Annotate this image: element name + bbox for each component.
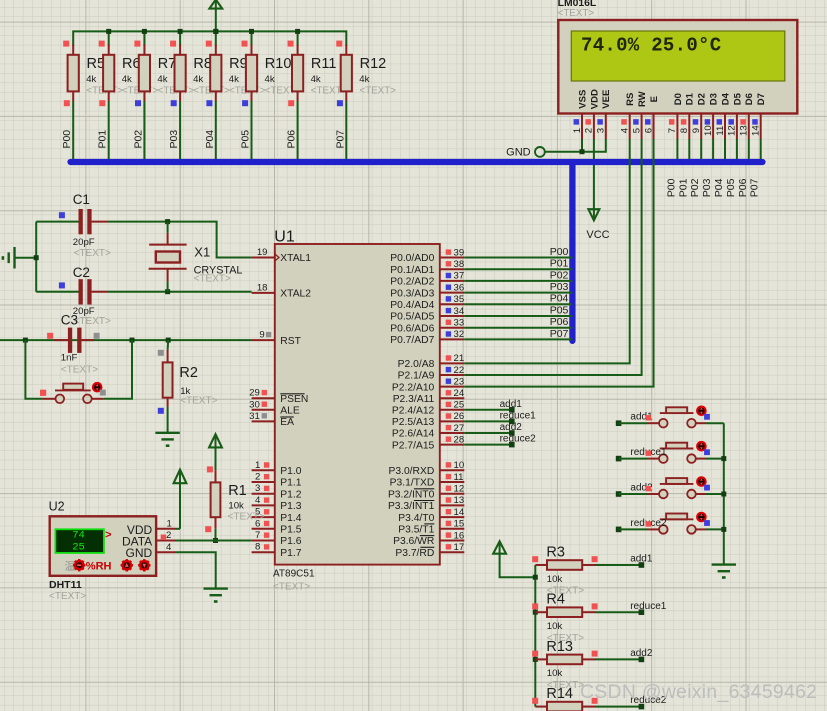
- wire P2.6 / node add2: [464, 422, 522, 436]
- svg-text:12: 12: [727, 125, 738, 136]
- svg-text:P04: P04: [713, 178, 725, 197]
- LCD pin 13 stub: [739, 114, 750, 140]
- IC U1 AT89C51 body: [273, 228, 440, 592]
- svg-text:P2.0/A8: P2.0/A8: [398, 359, 435, 370]
- svg-text:9: 9: [691, 128, 702, 133]
- wire P2.1 to LCD RW: [464, 139, 641, 375]
- crystal X1 CRYSTAL: [149, 222, 243, 292]
- svg-text:16: 16: [454, 530, 465, 541]
- svg-text:10: 10: [454, 460, 465, 471]
- svg-text:P00: P00: [61, 130, 73, 149]
- svg-text:4: 4: [620, 127, 631, 133]
- svg-text:28: 28: [454, 434, 465, 445]
- svg-text:VCC: VCC: [586, 229, 609, 241]
- wire P0.6 to bus / net label P06: [464, 316, 572, 328]
- svg-text:add1: add1: [630, 554, 653, 565]
- svg-text:XTAL1: XTAL1: [280, 253, 311, 264]
- svg-text:P3.2/INT0: P3.2/INT0: [388, 489, 435, 500]
- svg-text:<TEXT>: <TEXT>: [74, 248, 111, 259]
- U1 pin P1.5 (6): [252, 518, 302, 535]
- svg-text:15: 15: [454, 519, 465, 530]
- svg-text:D5: D5: [732, 92, 743, 105]
- svg-text:P0.4/AD4: P0.4/AD4: [390, 300, 434, 311]
- svg-text:13: 13: [454, 495, 465, 506]
- junction power rail / VCC arrow: [213, 29, 218, 34]
- junction RST/button right: [130, 338, 135, 343]
- svg-text:add2: add2: [630, 648, 653, 659]
- svg-text:P2.7/A15: P2.7/A15: [392, 440, 435, 451]
- push button (reset): [40, 382, 106, 403]
- svg-text:C3: C3: [61, 313, 78, 328]
- svg-text:18: 18: [257, 282, 268, 293]
- power flag VCC (down arrow): [586, 209, 609, 241]
- svg-text:22: 22: [454, 365, 465, 376]
- svg-text:74.0% 25.0°C: 74.0% 25.0°C: [581, 34, 721, 56]
- wire DHT11 DATA to P1.6: [175, 540, 252, 542]
- junction VSS/GND wire: [580, 149, 585, 154]
- svg-text:8: 8: [255, 542, 260, 553]
- svg-text:R12: R12: [360, 56, 387, 72]
- wire R3-R14 common: [534, 565, 536, 707]
- wire button reduce1 right: [706, 458, 724, 460]
- svg-text:24: 24: [454, 388, 465, 399]
- svg-text:reduce1: reduce1: [500, 410, 537, 421]
- svg-text:EA: EA: [280, 417, 294, 428]
- svg-text:P02: P02: [550, 269, 569, 281]
- svg-text:2: 2: [255, 472, 260, 483]
- svg-text:4k: 4k: [265, 74, 275, 85]
- push button reduce1: [630, 441, 709, 463]
- svg-text:<TEXT>: <TEXT>: [74, 316, 111, 327]
- LCD LCD1 LM016L: [558, 0, 798, 113]
- resistor R12 4k: [336, 41, 396, 107]
- svg-text:P05: P05: [550, 304, 569, 316]
- svg-text:E: E: [649, 96, 660, 102]
- svg-text:P03: P03: [701, 178, 713, 197]
- capacitor C2 20pF: [36, 265, 111, 327]
- wire P2.2 to LCD E: [464, 139, 653, 387]
- svg-text:<TEXT>: <TEXT>: [180, 396, 217, 407]
- svg-text:6: 6: [643, 128, 654, 133]
- wire R6 to bus / net label P01: [97, 101, 109, 162]
- resistor R1 10k: [205, 466, 265, 532]
- U1 pin P3.3/INT1 (13): [388, 495, 464, 512]
- junction common/power: [533, 575, 538, 580]
- U1 pin RST (9): [252, 330, 302, 347]
- resistor R10 4k: [242, 41, 302, 107]
- ground (DHT11): [204, 587, 228, 589]
- svg-text:RW: RW: [637, 91, 648, 107]
- U1 pin P0.4/AD4 (35): [390, 294, 464, 311]
- wire R14 / node reduce2: [595, 695, 667, 709]
- U1 pin P1.2 (3): [252, 483, 302, 500]
- svg-text:P06: P06: [737, 178, 749, 197]
- wire P0.4 to bus / net label P04: [464, 293, 572, 305]
- svg-text:31: 31: [249, 411, 260, 422]
- svg-text:R6: R6: [122, 56, 141, 72]
- svg-text:R9: R9: [229, 56, 248, 72]
- wire LCD pin1 VSS down: [581, 139, 583, 152]
- svg-text:29: 29: [249, 388, 260, 399]
- svg-text:23: 23: [454, 376, 465, 387]
- U1 pin P1.6 (7): [252, 530, 302, 547]
- wire P2.5 / node reduce1: [464, 410, 536, 424]
- power flag VCC (DHT11 VDD): [174, 470, 187, 529]
- ground (buttons): [712, 563, 736, 565]
- svg-text:add1: add1: [500, 399, 523, 410]
- wire P0.0 to bus / net label P00: [464, 246, 572, 258]
- svg-text:P1.7: P1.7: [280, 548, 301, 559]
- capacitor C3 1nF: [47, 313, 100, 376]
- wire R10 to bus / net label P05: [240, 101, 252, 162]
- svg-text:P0.0/AD0: P0.0/AD0: [390, 253, 434, 264]
- svg-text:32: 32: [454, 329, 465, 340]
- U1 pin P0.7/AD7 (32): [390, 329, 464, 346]
- svg-text:R7: R7: [158, 56, 177, 72]
- svg-text:1: 1: [166, 518, 171, 529]
- svg-text:25: 25: [72, 542, 85, 554]
- svg-text:CSDN @weixin_63459462: CSDN @weixin_63459462: [580, 681, 817, 703]
- svg-text:D6: D6: [744, 93, 755, 105]
- U1 pin ALE (30): [249, 399, 300, 416]
- wire R13 / node add2: [595, 648, 653, 662]
- wire button left leg: [25, 340, 42, 399]
- terminal GND: [506, 146, 545, 158]
- wire power rail to resistor bank: [73, 31, 346, 46]
- svg-text:4k: 4k: [193, 74, 203, 85]
- svg-text:10k: 10k: [547, 574, 563, 585]
- svg-text:R2: R2: [179, 365, 198, 381]
- svg-text:P07: P07: [550, 328, 569, 340]
- svg-text:P3.5/T1: P3.5/T1: [398, 525, 434, 536]
- wire LCD pin2 VDD to VCC: [593, 139, 595, 209]
- wire R12 to bus / net label P07: [334, 101, 346, 162]
- svg-text:P3.3/INT1: P3.3/INT1: [388, 501, 435, 512]
- svg-text:%RH: %RH: [86, 560, 112, 572]
- U1 pin P0.6/AD6 (33): [390, 318, 464, 335]
- svg-text:C1: C1: [73, 192, 90, 207]
- svg-text:R8: R8: [193, 56, 212, 72]
- svg-text:D2: D2: [697, 93, 708, 105]
- svg-text:10k: 10k: [547, 621, 563, 632]
- svg-text:X1: X1: [194, 244, 210, 259]
- wire C1 to XTAL1: [108, 222, 252, 258]
- svg-text:7: 7: [255, 530, 260, 541]
- svg-text:R4: R4: [546, 592, 565, 608]
- svg-text:P05: P05: [240, 130, 252, 149]
- resistor R11 4k: [288, 41, 348, 107]
- U1 pin P0.0/AD0 (39): [390, 247, 464, 264]
- resistor R13 10k: [532, 639, 597, 691]
- wire C2 to XTAL2: [108, 291, 252, 293]
- svg-text:74: 74: [72, 529, 85, 541]
- power flag VCC (above R1): [209, 434, 222, 470]
- svg-text:AT89C51: AT89C51: [273, 569, 315, 580]
- capacitor C1 20pF: [36, 192, 111, 259]
- svg-text:<TEXT>: <TEXT>: [228, 511, 265, 522]
- junction X1 bottom: [165, 289, 170, 294]
- svg-text:9: 9: [259, 330, 264, 341]
- svg-text:温: 温: [65, 561, 76, 573]
- svg-text:4k: 4k: [122, 74, 132, 85]
- wire R8 to bus / net label P03: [168, 101, 180, 162]
- U1 pin EA (31): [249, 411, 294, 428]
- resistor R9 4k: [206, 41, 266, 107]
- power flag VCC (R3 bank): [493, 541, 535, 577]
- wire button add1 right: [706, 422, 724, 424]
- svg-text:8: 8: [679, 128, 690, 133]
- svg-text:11: 11: [715, 126, 726, 136]
- svg-text:14: 14: [454, 507, 465, 518]
- LCD pin 9 stub: [691, 114, 702, 140]
- wire buttons common to ground: [723, 423, 725, 564]
- svg-text:10k: 10k: [228, 501, 244, 512]
- svg-text:PSEN: PSEN: [280, 394, 308, 405]
- wire DHT11 VDD: [175, 528, 180, 530]
- svg-text:5: 5: [631, 128, 642, 133]
- svg-text:12: 12: [454, 484, 465, 495]
- svg-text:P0.1/AD1: P0.1/AD1: [390, 265, 434, 276]
- bus P0 vertical branch: [569, 162, 575, 341]
- resistor R2 1k: [158, 340, 218, 414]
- U1 pin P3.0/RXD (10): [389, 460, 465, 477]
- resistor R4 10k: [532, 592, 597, 644]
- svg-text:26: 26: [454, 411, 465, 422]
- svg-text:27: 27: [454, 423, 465, 434]
- U1 pin P3.4/T0 (14): [398, 507, 465, 524]
- wire P0.1 to bus / net label P01: [464, 258, 572, 270]
- svg-text:>: >: [105, 529, 111, 541]
- svg-text:R11: R11: [311, 56, 337, 72]
- U1 pin PSEN (29): [249, 388, 308, 405]
- svg-text:R3: R3: [546, 544, 565, 560]
- LCD pin 6 stub: [643, 114, 654, 140]
- wire LCD D0-D7 to bus: [677, 139, 760, 162]
- svg-text:P01: P01: [550, 258, 569, 270]
- svg-text:P04: P04: [550, 293, 569, 305]
- U1 pin P3.5/T1 (15): [398, 519, 464, 536]
- U1 pin P0.1/AD1 (38): [390, 259, 464, 276]
- wire node reduce2 (button 4 left): [616, 527, 647, 533]
- svg-text:DHT11: DHT11: [49, 579, 82, 591]
- wire P0.5 to bus / net label P05: [464, 304, 572, 316]
- svg-text:P2.3/A11: P2.3/A11: [393, 394, 435, 405]
- svg-text:P03: P03: [550, 281, 569, 293]
- wire node add2 (button 3 left): [616, 491, 647, 497]
- svg-text:4k: 4k: [229, 74, 239, 85]
- push button add1: [630, 406, 709, 428]
- svg-text:VEE: VEE: [601, 90, 612, 109]
- wire P0.3 to bus / net label P03: [464, 281, 572, 293]
- wire ground to C1/C2 link: [15, 257, 37, 259]
- ground (below R2): [155, 432, 179, 434]
- resistor R7 4k: [134, 41, 194, 107]
- svg-text:XTAL2: XTAL2: [280, 289, 311, 300]
- svg-text:P04: P04: [204, 130, 216, 149]
- svg-text:P01: P01: [677, 178, 689, 197]
- svg-text:P00: P00: [665, 178, 677, 197]
- power flag VCC (top): [215, 0, 217, 9]
- junction buttons common: [721, 527, 726, 532]
- wire GND to LCD VSS,VEE: [545, 139, 606, 152]
- svg-text:<TEXT>: <TEXT>: [194, 273, 231, 284]
- svg-text:11: 11: [454, 472, 464, 483]
- svg-text:1nF: 1nF: [61, 353, 78, 364]
- svg-text:D3: D3: [709, 93, 720, 105]
- svg-text:P0.2/AD2: P0.2/AD2: [390, 277, 434, 288]
- svg-text:P2.6/A14: P2.6/A14: [392, 429, 435, 440]
- svg-text:R10: R10: [265, 56, 292, 72]
- svg-text:34: 34: [454, 306, 465, 317]
- U1 pin P2.2/A10 (23): [392, 376, 464, 393]
- wire P2.0 to LCD RS: [464, 139, 629, 363]
- U1 pin P0.2/AD2 (37): [390, 271, 464, 288]
- U1 pin P2.4/A12 (25): [392, 400, 464, 417]
- wire P0.2 to bus / net label P02: [464, 269, 572, 281]
- wire P2.7 / node reduce2: [464, 434, 536, 448]
- svg-text:VDD: VDD: [589, 89, 600, 109]
- U1 pin P2.5/A13 (26): [392, 411, 464, 428]
- wire R4 / node reduce1: [595, 601, 667, 615]
- push button reduce2: [630, 512, 709, 534]
- svg-text:D0: D0: [673, 93, 684, 105]
- svg-text:P02: P02: [689, 178, 701, 197]
- svg-text:D4: D4: [720, 92, 731, 105]
- svg-text:4: 4: [255, 495, 261, 506]
- svg-text:P1.4: P1.4: [280, 513, 301, 524]
- svg-text:<TEXT>: <TEXT>: [61, 365, 98, 376]
- svg-text:P03: P03: [168, 130, 180, 149]
- U1 pin P2.3/A11 (24): [393, 388, 465, 405]
- svg-text:GND: GND: [506, 146, 531, 158]
- svg-text:4: 4: [166, 542, 172, 553]
- svg-text:P1.6: P1.6: [280, 536, 301, 547]
- svg-text:25: 25: [454, 400, 465, 411]
- svg-text:P2.1/A9: P2.1/A9: [398, 371, 435, 382]
- junction buttons common: [721, 456, 726, 461]
- wire DHT11 GND to ground: [175, 552, 216, 588]
- svg-text:17: 17: [454, 542, 465, 553]
- svg-text:P3.0/RXD: P3.0/RXD: [389, 466, 435, 477]
- svg-text:P2.2/A10: P2.2/A10: [392, 382, 435, 393]
- svg-text:10: 10: [703, 125, 714, 136]
- svg-text:P3.1/TXD: P3.1/TXD: [390, 478, 435, 489]
- svg-text:P06: P06: [286, 130, 298, 149]
- svg-text:P05: P05: [725, 178, 737, 197]
- svg-text:4k: 4k: [86, 74, 96, 85]
- wire P0.7 to bus / net label P07: [464, 328, 572, 340]
- svg-text:reduce1: reduce1: [630, 601, 667, 612]
- LCD pin 11 stub: [715, 114, 726, 140]
- svg-text:21: 21: [454, 353, 465, 364]
- svg-text:P3.7/RD: P3.7/RD: [395, 548, 434, 559]
- wire button right leg: [104, 340, 132, 399]
- svg-text:4k: 4k: [359, 74, 369, 85]
- U1 pin P1.4 (5): [252, 507, 302, 524]
- svg-text:P2.4/A12: P2.4/A12: [392, 406, 435, 417]
- svg-text:GND: GND: [126, 546, 153, 560]
- svg-text:37: 37: [454, 271, 465, 282]
- wire node add1 (button 1 left): [616, 420, 647, 426]
- svg-text:3: 3: [255, 483, 260, 494]
- junction common/R4: [533, 610, 538, 615]
- wire R2 to ground: [167, 407, 169, 433]
- svg-text:1: 1: [255, 460, 260, 471]
- svg-text:reduce2: reduce2: [500, 434, 537, 445]
- LCD pin 1 stub: [572, 114, 583, 140]
- svg-text:P1.3: P1.3: [280, 501, 301, 512]
- wire R5 to bus / net label P00: [61, 101, 73, 162]
- ground (left, rotated): [2, 247, 15, 269]
- U1 pin P2.0/A8 (21): [398, 353, 465, 370]
- resistor R3 10k: [532, 544, 597, 596]
- svg-text:RS: RS: [625, 93, 636, 106]
- wire C1-C2 left link: [35, 222, 37, 292]
- svg-text:P2.5/A13: P2.5/A13: [392, 417, 435, 428]
- U1 pin P2.6/A14 (27): [392, 423, 464, 440]
- push button add2: [630, 476, 709, 498]
- junction buttons common: [721, 492, 726, 497]
- U1 pin P3.1/TXD (11): [390, 472, 465, 489]
- junction ground link: [34, 255, 39, 260]
- wire R11 to bus / net label P06: [286, 101, 298, 162]
- svg-text:20pF: 20pF: [73, 237, 95, 248]
- U1 pin P1.3 (4): [252, 495, 302, 512]
- svg-text:P1.5: P1.5: [280, 525, 301, 536]
- junction common/R13: [533, 657, 538, 662]
- wire R3 / node add1: [595, 554, 653, 568]
- wire R1 to DATA: [215, 529, 217, 541]
- U1 pin P1.7 (8): [252, 542, 302, 559]
- svg-text:VSS: VSS: [577, 90, 588, 109]
- wire R7 to bus / net label P02: [132, 101, 144, 162]
- svg-text:D1: D1: [685, 92, 696, 105]
- svg-text:add2: add2: [500, 422, 523, 433]
- svg-text:P07: P07: [334, 130, 346, 149]
- svg-text:13: 13: [739, 125, 750, 136]
- LCD pin 7 stub: [667, 114, 678, 140]
- junction RST/button left: [23, 338, 28, 343]
- junction RST/R2: [166, 338, 171, 343]
- svg-text:P06: P06: [550, 316, 569, 328]
- sensor U2 DHT11: [49, 500, 175, 602]
- svg-text:R14: R14: [546, 686, 573, 702]
- svg-text:U1: U1: [274, 228, 295, 245]
- LCD pin 10 stub: [703, 114, 714, 140]
- U1 pin P1.0 (1): [252, 460, 302, 477]
- svg-text:33: 33: [454, 318, 465, 329]
- U1 pin P2.1/A9 (22): [398, 365, 465, 382]
- svg-text:1: 1: [572, 128, 583, 133]
- LCD pin 5 stub: [631, 114, 642, 140]
- resistor R5 4k: [63, 41, 123, 107]
- wire R9 to bus / net label P04: [204, 101, 216, 162]
- wire button add2 right: [706, 493, 724, 495]
- svg-text:7: 7: [667, 128, 678, 133]
- svg-text:P1.0: P1.0: [280, 466, 301, 477]
- svg-text:<TEXT>: <TEXT>: [49, 591, 86, 602]
- svg-text:R13: R13: [546, 639, 573, 655]
- svg-text:4k: 4k: [311, 74, 321, 85]
- U1 pin XTAL1 (19): [252, 247, 312, 264]
- wire RST net: [0, 339, 252, 341]
- U1 pin P0.5/AD5 (34): [390, 306, 465, 323]
- svg-text:RST: RST: [280, 336, 301, 347]
- svg-text:P0.5/AD5: P0.5/AD5: [390, 312, 434, 323]
- svg-text:<TEXT>: <TEXT>: [360, 86, 397, 97]
- svg-text:P1.2: P1.2: [280, 489, 301, 500]
- svg-text:P3.6/WR: P3.6/WR: [393, 536, 434, 547]
